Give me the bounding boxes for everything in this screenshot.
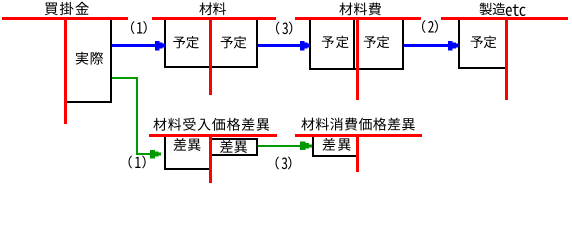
label kaikakekin (accounts payable) bbox=[45, 2, 89, 15]
box sai2 (uketorisai right) bbox=[209, 138, 258, 156]
label zairyo shohi kakaku sai (consumption price variance) bbox=[301, 118, 414, 131]
box yotei pair under zairyo bbox=[164, 17, 258, 68]
box yotei under seizo etc bbox=[458, 17, 508, 69]
red vertical shohi kakaku sai bbox=[356, 134, 359, 172]
label zairyo ukeire kakaku sai (receiving price variance) bbox=[153, 118, 269, 131]
label zairyo (materials) bbox=[199, 2, 226, 15]
red vertical kaikakekin bbox=[64, 17, 67, 124]
box sai3 (shohisai) open-top bbox=[312, 137, 358, 157]
label (1) bottom bbox=[129, 155, 146, 168]
text yotei right in zairyohi bbox=[364, 36, 390, 48]
text jissai (actual) bbox=[76, 52, 103, 65]
text sai in box3 bbox=[323, 138, 351, 151]
red top line zairyo bbox=[152, 17, 276, 20]
red vertical ukeire kakaku sai bbox=[209, 134, 212, 183]
text yotei in seizo etc bbox=[471, 36, 497, 48]
red top line seizo etc bbox=[441, 17, 568, 20]
text yotei left in zairyo bbox=[173, 36, 199, 48]
green vertical down bbox=[136, 77, 138, 154]
green arrow (1) into sai1 bbox=[136, 150, 161, 159]
box actual (jissai) under kaikakekin bbox=[65, 17, 112, 103]
blue arrow (3) zairyo to zairyohi bbox=[258, 41, 310, 51]
red vertical seizo etc bbox=[505, 17, 508, 100]
red vertical zairyohi bbox=[356, 17, 359, 100]
green horiz from jissai box bbox=[112, 77, 138, 79]
red vertical zairyo bbox=[209, 17, 212, 95]
blue arrow (1) kaikakekin to zairyo bbox=[112, 41, 165, 51]
label (1) top bbox=[131, 21, 147, 34]
text yotei right in zairyo bbox=[221, 36, 247, 48]
blue arrow (2) zairyohi to seizo bbox=[404, 41, 459, 51]
red top line zairyohi bbox=[295, 17, 421, 20]
label (3) bottom bbox=[276, 156, 292, 169]
text sai in box1 bbox=[174, 138, 201, 151]
green arrow (3) sai2 to sai3 bbox=[258, 142, 312, 151]
text yotei left in zairyohi bbox=[322, 36, 349, 48]
box sai1 (uketorisai left) open-top bbox=[164, 137, 210, 170]
label (2) top bbox=[422, 20, 438, 33]
text sai in box2 bbox=[220, 140, 247, 153]
red top line kaikakekin bbox=[2, 17, 128, 20]
divider zairyohi box bbox=[353, 17, 355, 70]
label (3) top bbox=[276, 21, 292, 34]
red underline ukeire kakaku sai bbox=[149, 134, 277, 137]
label etc bbox=[506, 4, 526, 16]
red underline shohi kakaku sai bbox=[295, 134, 422, 137]
box yotei pair under zairyohi bbox=[309, 17, 404, 70]
label zairyohi (materials cost) bbox=[339, 2, 381, 15]
label seizo (manufacturing) bbox=[480, 3, 506, 15]
